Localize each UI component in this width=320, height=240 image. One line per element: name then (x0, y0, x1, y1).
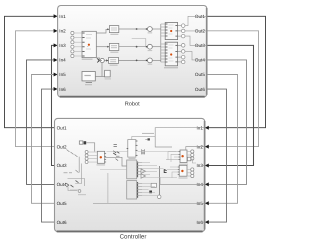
Controller inner: trunk down to In5 wire (107, 173, 109, 203)
Robot inner: sample-time marker on A (170, 30, 172, 32)
Controller inner: wires G2 right fanout (142, 184, 157, 196)
Controller inner: wires into D left side (167, 167, 178, 178)
Robot inner: outport circle 3 (178, 34, 207, 45)
Controller inner: wires G1 right fanout (142, 163, 163, 175)
Controller inner: center trunk (159, 166, 161, 197)
wire Robot.Out4 -> Controller.In4 (right loop 4) (205, 60, 247, 186)
Robot inner: outport circle 2 (178, 29, 207, 33)
wire Controller.Out1 -> Robot.In1 (left loop 1) (5, 14, 58, 127)
subsystem block Robot (58, 6, 207, 97)
Robot inner: wire row2 -> integrator circle 2 (119, 44, 161, 51)
Robot inner: transfer block row 1 (109, 26, 118, 35)
Robot inner: subsystem U1 (6-in) (82, 31, 97, 60)
Controller inner: switch glyph (164, 169, 166, 173)
svg-text:In5: In5 (59, 72, 66, 77)
svg-text:Out6: Out6 (195, 87, 205, 92)
Controller inner: tiny dark tag top (148, 138, 150, 140)
Robot inner: wire row3 -> integrator circle 3 (118, 58, 160, 65)
Controller inner: goto glyph cluster mid (113, 145, 119, 161)
Robot inner: small block below junction (105, 70, 111, 79)
Robot inner: transfer block row 2 (109, 43, 118, 52)
svg-text:In3: In3 (197, 163, 204, 168)
Controller inner: wire constant -> S1 (86, 143, 94, 152)
svg-text:Robot: Robot (125, 100, 140, 107)
svg-text:Out5: Out5 (195, 72, 205, 77)
Controller inner: wire from In6 stub (197, 221, 205, 223)
wire Robot.Out2 -> Controller.In2 (right loop 2) (205, 31, 259, 149)
Controller inner: subsystem S1 (97, 151, 107, 165)
Controller inner: long cross wires (107, 151, 177, 153)
Robot inner: wire U1 -> row3 (96, 58, 102, 60)
Robot inner: wire U1 -> row2 (96, 46, 107, 48)
Controller inner: small block near In3 (187, 157, 196, 163)
Robot inner: outport circle 1 (178, 16, 207, 27)
svg-text:Out1: Out1 (57, 125, 67, 130)
Robot inner: transfer block row 3 (109, 57, 119, 66)
Controller inner: wire from H1 top (132, 136, 155, 139)
Controller inner: wire S1 -> G1 (105, 157, 127, 166)
Robot inner: outport circle 7 (178, 60, 185, 64)
svg-text:Out6: Out6 (57, 220, 67, 225)
Robot inner: distribution trunk (161, 24, 165, 62)
svg-text:Controller: Controller (120, 233, 147, 240)
svg-text:Out4: Out4 (57, 182, 67, 187)
wire Controller.Out6 -> Robot.In6 (left loop 6) (42, 87, 58, 222)
svg-text:Out2: Out2 (57, 144, 67, 149)
Controller inner: constant block with display (79, 141, 86, 145)
Controller inner: wire from In1 (155, 128, 204, 147)
Robot inner: outport circle 4 (178, 44, 185, 48)
svg-text:In1: In1 (59, 14, 66, 19)
Controller inner: sample-time marker on C (181, 155, 183, 157)
Controller inner: wire mid horizontal (142, 132, 154, 134)
Robot inner: wire row1 -> integrator circle 1 (119, 27, 161, 34)
Controller inner: goto tag glyphs left cluster (64, 150, 79, 173)
wire Controller.Out3 -> Robot.In3 (left loop 3) (52, 43, 58, 165)
Robot inner: outport circle 6 (178, 55, 185, 59)
Robot inner: MIMO subsystem A (165, 23, 177, 40)
Controller inner: selector block H1 (127, 140, 138, 160)
Robot inner: sample-time marker on B (170, 53, 172, 55)
svg-text:Out3: Out3 (57, 163, 67, 168)
Controller inner: from-tag loop near Out4 (66, 179, 86, 196)
Controller inner: subsystem C (179, 150, 189, 165)
Robot inner: column of 6 inport circles (71, 31, 82, 57)
Robot inner: sum junction circle (98, 58, 108, 62)
Controller inner: left trunk wire (78, 157, 80, 173)
Controller inner: outport circles of D (187, 168, 194, 178)
Controller inner: ladder glyph (142, 149, 145, 154)
Controller inner: wires into C left side (166, 152, 179, 162)
wire Controller.Out2 -> Robot.In2 (left loop 2) (16, 29, 58, 147)
Controller inner: wire from In5 (93, 202, 204, 204)
Robot inner: display/scope block (82, 72, 95, 86)
wire Controller.Out5 -> Robot.In5 (left loop 5) (32, 73, 58, 204)
wire Robot.Out6 -> Controller.In6 (right loop 6) (205, 89, 227, 224)
Controller inner: gain triangles (141, 169, 146, 178)
Controller inner: outport circles of C (187, 150, 194, 160)
Controller inner: gray bus block G1 (127, 160, 143, 179)
Controller inner: wire from In3 (203, 165, 204, 167)
Controller inner: sample-time marker on S1 (100, 156, 102, 158)
Robot inner: U1 text lines (86, 35, 92, 50)
Robot inner: MIMO subsystem B (164, 42, 178, 68)
wire Controller.Out4 -> Robot.In4 (left loop 4) (27, 58, 58, 184)
Robot inner: wire U1 -> row1 (96, 29, 107, 33)
Robot inner: chevron before junction (97, 59, 99, 63)
Controller inner: subsystem D (178, 165, 188, 178)
wire Robot.Out3 -> Controller.In3 (right loop 3) (205, 45, 254, 167)
svg-text:In3: In3 (59, 43, 66, 48)
Robot inner: wire display -> junction column (95, 76, 104, 78)
subsystem block Controller (55, 118, 205, 231)
svg-text:In6: In6 (59, 87, 66, 92)
Controller inner: wire from In2 (186, 147, 204, 150)
Robot inner: outport circle 5 (178, 50, 207, 60)
Controller inner: wire from In4 (160, 177, 204, 184)
Controller inner: left drop wire with elbow (75, 164, 81, 184)
Controller inner: sample-time marker on D (181, 170, 183, 172)
Controller inner: inport circles column (85, 151, 97, 164)
svg-text:In4: In4 (59, 58, 66, 63)
wire Robot.Out1 -> Controller.In1 (right loop 1) (205, 16, 266, 129)
Controller inner: gray bus block G2 (127, 181, 143, 199)
Robot inner: crossing wire row1 branch (132, 39, 146, 47)
svg-text:Out5: Out5 (57, 201, 67, 206)
svg-text:In2: In2 (59, 29, 66, 34)
Controller inner: small blocks cluster bottom (149, 183, 161, 198)
wire Robot.Out5 -> Controller.In5 (right loop 5) (205, 75, 238, 206)
Robot inner: sample-time marker on U1 (88, 44, 90, 46)
